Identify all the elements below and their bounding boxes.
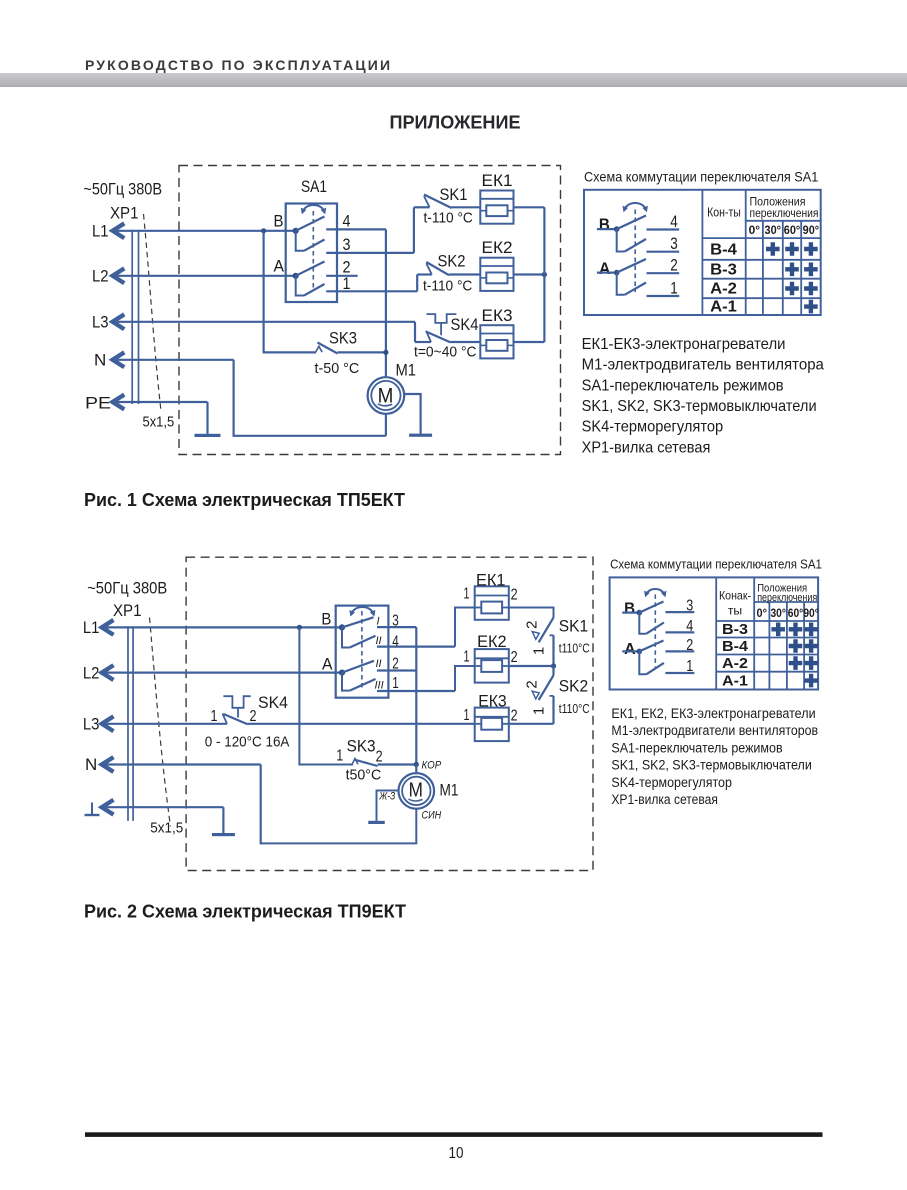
svg-text:L3: L3 — [92, 313, 109, 332]
wire N (fig1) — [117, 359, 234, 361]
svg-text:SK4: SK4 — [451, 315, 479, 334]
fig1 dashed enclosure box — [179, 166, 561, 455]
wire N riser (fig2) — [260, 765, 262, 845]
svg-text:5х1,5: 5х1,5 — [143, 415, 175, 431]
svg-text:L1: L1 — [83, 618, 100, 637]
svg-text:SK1: SK1 — [440, 185, 468, 204]
junction SK3 / motor trunk (fig1) — [383, 350, 388, 355]
thermostat SK4 (fig1) — [414, 314, 480, 360]
svg-text:ХР1-вилка сетевая: ХР1-вилка сетевая — [611, 792, 718, 807]
SA1 terminal 4 (fig1) — [326, 228, 386, 230]
SA1 terminal 3 (fig2) — [377, 626, 416, 628]
svg-text:4: 4 — [686, 618, 693, 635]
svg-text:SK2: SK2 — [559, 677, 588, 696]
svg-text:1: 1 — [670, 280, 678, 298]
wire L1 to SA1 B (fig1) — [117, 230, 296, 232]
svg-text:А: А — [274, 258, 285, 276]
fig1 table switch diagram — [597, 203, 679, 298]
earth terminal symbol (fig2 left) — [91, 803, 93, 816]
header grey bar — [0, 73, 907, 87]
svg-text:SA1-переключатель режимов: SA1-переключатель режимов — [582, 377, 784, 394]
wire L1 branch down to SK3 (fig2) — [299, 627, 353, 764]
svg-text:3: 3 — [686, 598, 693, 615]
svg-text:4: 4 — [392, 634, 399, 651]
heater EK2 — [475, 649, 509, 683]
svg-text:0°: 0° — [749, 223, 761, 237]
wire motor bottom return (fig2) — [261, 809, 417, 844]
svg-text:1: 1 — [392, 675, 399, 692]
SA1 terminal 1 (fig1) — [326, 290, 417, 292]
svg-text:1: 1 — [464, 586, 470, 603]
svg-text:РЕ: РЕ — [85, 394, 111, 413]
heater EK1 — [475, 586, 509, 620]
motor M1 (fig2) — [399, 773, 459, 809]
wire L1 branch down to SK3 (fig1) — [263, 231, 265, 353]
ground earth (fig2) — [222, 830, 224, 833]
svg-text:SK3: SK3 — [347, 737, 376, 756]
fig2 dashed enclosure box — [186, 557, 593, 870]
wire L2 to SA1 A (fig1) — [117, 275, 296, 277]
svg-text:В-4: В-4 — [710, 242, 737, 259]
wire motor bottom (fig1) — [385, 414, 387, 436]
SA1 terminal 2 (fig2) — [377, 669, 416, 671]
thermal switch SK1 (fig2) — [524, 617, 590, 667]
svg-text:Рис. 1 Схема электрическая ТП5: Рис. 1 Схема электрическая ТП5ЕКТ — [84, 489, 406, 510]
svg-text:Ж-З: Ж-З — [379, 791, 396, 803]
svg-text:2: 2 — [511, 708, 518, 725]
svg-text:А: А — [599, 260, 611, 278]
ground at motor (fig1) — [420, 430, 422, 434]
wire motor to ground (fig1) — [404, 394, 420, 434]
thermostat SK4 (fig2) — [205, 693, 475, 751]
svg-text:t-110 °С: t-110 °С — [424, 211, 473, 227]
svg-text:t110°С: t110°С — [559, 641, 590, 656]
svg-text:1: 1 — [531, 707, 548, 715]
svg-text:~50Гц 380В: ~50Гц 380В — [83, 181, 162, 199]
svg-text:1: 1 — [531, 647, 548, 655]
thermal switch SK3 (fig1) — [315, 329, 386, 378]
wire bottom return (fig1) — [234, 435, 386, 437]
junction SK1 / EK2 (fig2) — [551, 663, 556, 668]
svg-text:SK1, SK2, SK3-термовыключатели: SK1, SK2, SK3-термовыключатели — [582, 398, 817, 415]
svg-text:ЕК1: ЕК1 — [476, 572, 506, 590]
svg-text:SK4-терморегулятор: SK4-терморегулятор — [611, 775, 732, 790]
switch SA1 (fig1) — [274, 177, 338, 302]
svg-text:2: 2 — [392, 656, 399, 673]
fig2 table plus marks — [771, 623, 785, 637]
fig2 cable dashed boundary 5x1,5 — [150, 618, 171, 827]
svg-text:2: 2 — [524, 680, 541, 688]
svg-text:2: 2 — [376, 749, 383, 766]
svg-text:Схема коммутации переключателя: Схема коммутации переключателя SA1 — [610, 558, 822, 572]
wire EK2 to junction (fig2) — [509, 665, 554, 667]
svg-text:А: А — [322, 656, 333, 674]
svg-text:2: 2 — [670, 257, 678, 275]
wire to SK3 (fig1) — [263, 351, 316, 353]
svg-text:М1: М1 — [396, 361, 417, 380]
svg-text:SA1-переключатель режимов: SA1-переключатель режимов — [611, 740, 782, 755]
svg-text:30°: 30° — [765, 223, 782, 237]
svg-text:ХР1: ХР1 — [110, 205, 139, 223]
junction L1 / motor branch (fig1) — [261, 228, 266, 233]
svg-text:0 - 120°С 16А: 0 - 120°С 16А — [205, 735, 290, 751]
svg-text:А-1: А-1 — [710, 298, 737, 315]
svg-text:1: 1 — [336, 748, 343, 765]
svg-text:М1: М1 — [440, 781, 459, 800]
svg-text:М: М — [409, 780, 423, 802]
thermal switch SK1 (fig1) — [414, 185, 480, 253]
wire earth (fig2) — [106, 806, 223, 808]
heater EK2 — [480, 258, 513, 291]
svg-text:L1: L1 — [92, 222, 109, 241]
svg-text:ЕК1: ЕК1 — [482, 171, 513, 190]
thermal switch SK2 (fig1) — [417, 252, 480, 295]
svg-text:В: В — [274, 213, 284, 231]
ground PE (fig1) — [207, 430, 209, 434]
svg-text:90°: 90° — [803, 608, 819, 620]
svg-text:t-110 °С: t-110 °С — [423, 279, 472, 295]
svg-text:t-50 °С: t-50 °С — [315, 361, 360, 377]
svg-text:Кон-ты: Кон-ты — [707, 206, 741, 220]
svg-text:II: II — [376, 635, 382, 647]
svg-text:I: I — [377, 616, 380, 628]
SA1 terminal 3 (fig1) — [326, 252, 414, 254]
svg-text:60°: 60° — [784, 223, 801, 237]
svg-text:10: 10 — [449, 1145, 464, 1162]
svg-text:3: 3 — [392, 613, 399, 630]
junction SK3 / motor (fig2), node КОР — [414, 762, 419, 767]
wire PE (fig1) — [117, 401, 208, 403]
heater EK1 wires (fig2) — [455, 608, 475, 647]
svg-text:В: В — [321, 611, 331, 629]
svg-text:90°: 90° — [803, 223, 820, 237]
svg-text:А-2: А-2 — [722, 655, 748, 672]
svg-text:А-2: А-2 — [710, 281, 737, 298]
svg-text:3: 3 — [343, 235, 351, 254]
thermal switch SK2 (fig2) — [524, 666, 590, 724]
svg-text:Схема коммутации переключателя: Схема коммутации переключателя SA1 — [584, 170, 818, 185]
svg-text:ЕК2: ЕК2 — [482, 238, 513, 257]
svg-text:ПРИЛОЖЕНИЕ: ПРИЛОЖЕНИЕ — [390, 111, 521, 132]
svg-text:СИН: СИН — [422, 810, 442, 822]
right bus vertical (fig1) — [543, 207, 545, 342]
svg-text:1: 1 — [464, 707, 470, 724]
svg-text:4: 4 — [343, 212, 351, 231]
wire L2 to SA1 A (fig2) — [106, 671, 342, 673]
svg-text:0°: 0° — [757, 608, 768, 620]
svg-text:~50Гц 380В: ~50Гц 380В — [87, 580, 167, 598]
svg-text:N: N — [94, 351, 106, 370]
svg-text:М1-электродвигатели вентилятор: М1-электродвигатели вентиляторов — [611, 723, 818, 738]
wire N riser (fig1) — [233, 360, 235, 437]
svg-text:2: 2 — [686, 637, 693, 654]
footer rule — [85, 1132, 823, 1137]
wire EK3 to right bus (fig1) — [514, 341, 545, 343]
fig2 switch table frame — [610, 577, 819, 689]
svg-text:3: 3 — [670, 235, 678, 253]
svg-text:30°: 30° — [770, 608, 786, 620]
svg-text:А-1: А-1 — [722, 673, 748, 690]
wire PE riser (fig1) — [206, 402, 208, 434]
ground at motor (fig2) — [376, 818, 378, 821]
svg-text:переключения: переключения — [750, 206, 819, 220]
svg-text:SK3: SK3 — [329, 329, 357, 348]
svg-text:L3: L3 — [83, 715, 100, 734]
svg-text:II: II — [376, 658, 382, 670]
svg-text:2: 2 — [511, 649, 518, 666]
wire terminal3 down to motor (fig2) — [415, 627, 417, 764]
svg-text:Рис. 2 Схема электрическая ТП9: Рис. 2 Схема электрическая ТП9ЕКТ — [84, 901, 407, 922]
svg-text:SK1, SK2, SK3-термовыключатели: SK1, SK2, SK3-термовыключатели — [611, 758, 811, 773]
svg-text:В: В — [599, 216, 610, 234]
svg-text:1: 1 — [211, 708, 218, 725]
svg-text:t50°С: t50°С — [346, 768, 382, 784]
fig2 plug XP1 symbol (double bars) — [127, 626, 129, 821]
svg-text:В-3: В-3 — [710, 261, 737, 278]
svg-text:1: 1 — [686, 658, 693, 675]
junction L1 / SK3 branch (fig2) — [297, 625, 302, 630]
wire EK1 to SK1 (fig2) — [509, 608, 554, 618]
svg-text:L2: L2 — [92, 267, 109, 286]
thermal switch SK3 (fig2) — [336, 737, 416, 784]
svg-text:2: 2 — [524, 621, 541, 629]
SA1 terminal 2 (fig1) — [326, 275, 358, 277]
svg-text:М1-электродвигатель вентилятор: М1-электродвигатель вентилятора — [582, 357, 824, 374]
svg-text:III: III — [375, 680, 384, 692]
svg-text:ЕК3: ЕК3 — [482, 306, 513, 325]
svg-text:SK2: SK2 — [438, 252, 466, 271]
svg-text:Конак-: Конак- — [719, 589, 751, 603]
wire L3 to SK4 (fig1) — [117, 321, 415, 323]
svg-text:SK1: SK1 — [559, 617, 588, 636]
switch SA1 (fig2) — [321, 606, 388, 698]
svg-text:N: N — [85, 755, 97, 774]
wire EK2 to right bus junction (fig1) — [514, 273, 545, 275]
wire N (fig2) — [106, 763, 261, 765]
svg-text:ЕК1-ЕК3-электронагреватели: ЕК1-ЕК3-электронагреватели — [582, 336, 786, 353]
svg-text:t=0~40 °С: t=0~40 °С — [414, 345, 477, 361]
svg-text:КОР: КОР — [422, 760, 442, 772]
svg-text:1: 1 — [464, 649, 470, 666]
svg-text:L2: L2 — [83, 664, 100, 683]
svg-text:1: 1 — [343, 274, 351, 293]
svg-text:ХР1-вилка сетевая: ХР1-вилка сетевая — [582, 439, 711, 456]
fig1 cable dashed boundary 5x1,5 — [144, 214, 162, 411]
svg-text:РУКОВОДСТВО ПО ЭКСПЛУАТАЦИИ: РУКОВОДСТВО ПО ЭКСПЛУАТАЦИИ — [85, 57, 390, 73]
wire EK1 to right bus (fig1) — [514, 206, 545, 208]
heater EK3 — [475, 708, 509, 742]
svg-text:2: 2 — [250, 708, 257, 725]
svg-text:ЕК3: ЕК3 — [478, 693, 507, 711]
svg-text:ЕК1, ЕК2, ЕК3-электронагревате: ЕК1, ЕК2, ЕК3-электронагреватели — [611, 706, 815, 721]
motor M1 (fig1) — [368, 361, 416, 414]
wire SK2 to EK3 (fig2) — [509, 723, 554, 725]
fig1 table plus marks — [766, 242, 780, 256]
svg-text:5х1,5: 5х1,5 — [150, 821, 183, 837]
svg-text:В-3: В-3 — [722, 621, 748, 638]
svg-text:SK4: SK4 — [258, 693, 288, 712]
svg-text:ты: ты — [728, 604, 742, 618]
svg-text:ЕК2: ЕК2 — [477, 633, 507, 651]
svg-text:SK4-терморегулятор: SK4-терморегулятор — [582, 419, 724, 436]
heater EK3 — [480, 325, 513, 358]
wire terminal4 down to motor trunk (fig1) — [385, 229, 387, 377]
svg-text:2: 2 — [511, 587, 518, 604]
svg-text:переключения: переключения — [757, 592, 817, 604]
wire earth riser (fig2) — [222, 807, 224, 833]
wire to motor top (fig2) — [415, 765, 417, 774]
SA1 terminal 4 (fig2) — [377, 645, 455, 647]
svg-text:SA1: SA1 — [301, 177, 327, 196]
svg-text:А: А — [624, 641, 636, 658]
fig1 plug XP1 symbol (double bars) — [131, 230, 133, 404]
wire L3 to SK4 (fig2) — [106, 723, 227, 725]
heater EK2 wires (fig2) — [455, 666, 475, 691]
fig1 switch table frame — [584, 190, 821, 315]
heater EK1 — [480, 191, 513, 224]
svg-text:В-4: В-4 — [722, 638, 749, 655]
svg-text:4: 4 — [670, 213, 678, 231]
svg-text:ХР1: ХР1 — [113, 602, 142, 620]
fig2 table switch diagram — [622, 589, 694, 675]
svg-text:t110°С: t110°С — [559, 701, 590, 716]
wire L1 to SA1 B (fig2) — [106, 626, 342, 628]
svg-text:60°: 60° — [788, 608, 804, 620]
SA1 terminal 1 (fig2) — [377, 690, 455, 692]
svg-text:В: В — [624, 601, 635, 618]
